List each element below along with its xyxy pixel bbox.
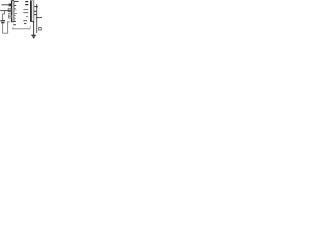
pin label y20.5 xyxy=(23,20,27,22)
pin stub y18.6 xyxy=(14,18,16,20)
wire U shape bottom left xyxy=(3,22,10,33)
resistor R1 xyxy=(9,4,12,7)
wire xyxy=(2,4,9,6)
pin stub y13.6 xyxy=(14,13,17,15)
pin right y11 xyxy=(34,10,37,12)
pin stub y5.5 xyxy=(14,5,16,7)
pin label y9.5 xyxy=(23,9,28,11)
wire pin1 top xyxy=(14,1,19,3)
connector J1 left IC body xyxy=(11,0,14,22)
pin right y6.6 xyxy=(34,6,37,8)
label text mark under left IC xyxy=(13,24,16,26)
label text mark xyxy=(24,23,26,25)
IC U1 body xyxy=(31,0,35,21)
pin label y16.6 xyxy=(26,16,28,18)
pin label y1.5 xyxy=(25,1,28,3)
wire branch down xyxy=(3,11,5,20)
junction dot out xyxy=(36,17,38,19)
pin label y12.5 xyxy=(23,12,28,14)
pin stub y15.6 xyxy=(14,15,16,17)
resistor R3 xyxy=(8,15,11,18)
capacitor C1 / ground plates xyxy=(0,20,5,22)
component small box right xyxy=(39,28,42,31)
pin stub y8.6 xyxy=(14,8,16,10)
wire vertical bus xyxy=(36,4,38,33)
wire ground lead xyxy=(33,22,35,35)
junction dot xyxy=(36,6,38,8)
wire right end tick xyxy=(29,26,31,29)
pin label y4.5 xyxy=(25,4,28,6)
wire out right xyxy=(37,17,42,19)
pin right y14.6 xyxy=(34,14,37,16)
wire dash y13.6 xyxy=(8,13,11,15)
wire xyxy=(0,10,11,12)
wire bottom horizontal xyxy=(13,27,31,29)
resistor R2 xyxy=(8,9,11,12)
ground xyxy=(31,35,35,38)
pin stub y21.4 xyxy=(14,20,16,22)
wire through R3 xyxy=(8,16,12,18)
pin label y9.9 xyxy=(14,9,16,11)
